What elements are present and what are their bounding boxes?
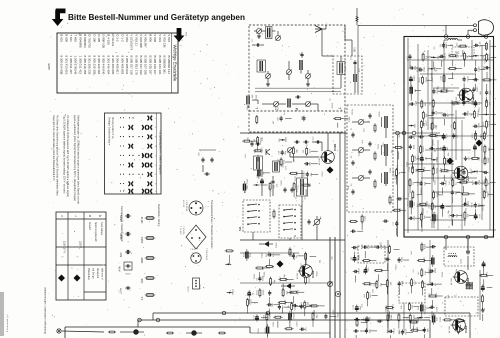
diamond ZA — [447, 158, 454, 165]
svg-text:D 701/702: D 701/702 — [88, 34, 92, 48]
svg-text:R161: R161 — [436, 292, 438, 298]
component — [428, 131, 442, 145]
component — [225, 263, 231, 265]
component — [225, 250, 234, 264]
component — [433, 190, 444, 199]
component — [428, 66, 441, 79]
svg-text:V 901: V 901 — [125, 34, 129, 42]
svg-text:AC151: AC151 — [296, 272, 299, 279]
svg-text:D 100: D 100 — [92, 34, 96, 42]
cap C49 — [271, 179, 274, 185]
svg-text:C105: C105 — [281, 180, 283, 186]
svg-text:R141: R141 — [442, 271, 444, 277]
component — [356, 318, 368, 327]
junction 397/133 — [396, 131, 400, 135]
varcap C8 — [306, 74, 311, 79]
svg-text:R101: R101 — [307, 301, 309, 307]
svg-text:R141: R141 — [391, 314, 393, 320]
hatch block — [466, 282, 473, 290]
wire tuner 5 — [311, 104, 319, 111]
component — [483, 120, 496, 135]
svg-text:R133: R133 — [263, 289, 265, 295]
svg-text:∼: ∼ — [76, 255, 79, 259]
component — [429, 202, 442, 217]
IF trafo L13 — [337, 62, 345, 75]
wire v100 2 — [262, 170, 302, 205]
svg-text:8 306 406 090: 8 306 406 090 — [111, 56, 115, 75]
svg-text:Transistoranschlüsse / Transis: Transistoranschlüsse / Transistor connec… — [210, 200, 213, 249]
fuse rating legend — [140, 204, 160, 301]
svg-text:4-fach-anschl. | pf: 4-fach-anschl. | pf — [7, 314, 9, 332]
svg-text:1n: 1n — [406, 57, 408, 59]
svg-text:V 956,957: V 956,957 — [144, 34, 148, 48]
svg-text:R155: R155 — [437, 167, 439, 173]
svg-text:C124: C124 — [431, 123, 433, 129]
svg-text:V100: V100 — [333, 143, 337, 151]
component — [428, 282, 442, 295]
component — [472, 179, 485, 185]
component — [243, 249, 252, 261]
measurement notes text — [52, 115, 80, 204]
svg-text:V 105: V 105 — [188, 286, 190, 292]
svg-text:C166: C166 — [254, 273, 256, 279]
svg-text:U: U — [61, 214, 63, 218]
transistor V103 — [296, 265, 315, 279]
junction mid right — [404, 131, 440, 135]
junction bottom 2 — [466, 235, 470, 239]
svg-text:AF 106: AF 106 — [318, 157, 321, 165]
component — [410, 326, 425, 332]
component — [462, 200, 470, 206]
component — [461, 211, 474, 226]
component — [440, 167, 454, 181]
component — [364, 267, 367, 274]
component — [462, 100, 473, 106]
wire bt — [62, 331, 330, 333]
component — [429, 306, 435, 318]
component — [418, 180, 431, 194]
component — [299, 327, 307, 331]
svg-text:47k: 47k — [430, 102, 432, 105]
component — [448, 52, 458, 66]
M/L switch box (dashed) — [238, 200, 270, 232]
component — [483, 171, 489, 183]
component — [451, 190, 462, 203]
svg-text:8 306 405 817: 8 306 405 817 — [116, 56, 120, 75]
component — [451, 121, 456, 130]
svg-text:C152: C152 — [435, 179, 437, 185]
dashed box TB2 — [444, 239, 474, 270]
component — [459, 180, 473, 193]
cap C11 — [295, 95, 301, 98]
component — [473, 55, 486, 66]
svg-text:C B E: C B E — [190, 249, 196, 251]
svg-text:C119: C119 — [415, 100, 417, 106]
pointer arrow (header) — [52, 9, 66, 27]
component — [483, 53, 496, 62]
svg-text:C131: C131 — [264, 271, 266, 277]
svg-text:B 900/903: B 900/903 — [83, 34, 87, 48]
component — [440, 74, 453, 89]
bottom box top — [153, 313, 470, 338]
svg-text:R161: R161 — [447, 157, 449, 163]
component — [361, 214, 367, 230]
svg-text:15k: 15k — [440, 44, 442, 47]
pointer arrow (table) — [174, 28, 188, 42]
svg-text:M/L: M/L — [238, 226, 242, 231]
component — [268, 290, 271, 304]
component — [408, 215, 420, 220]
diode m1 — [259, 241, 273, 246]
svg-text:R155: R155 — [437, 214, 439, 220]
wire plug drop 2 — [468, 30, 474, 34]
svg-text:R141: R141 — [291, 248, 293, 254]
svg-text:8 303 446 404: 8 303 446 404 — [106, 56, 110, 75]
component — [482, 261, 485, 275]
v103 fill — [243, 249, 316, 316]
svg-text:R141: R141 — [407, 161, 409, 167]
label BF254 — [294, 252, 296, 260]
component — [442, 133, 449, 140]
diamond V103 — [277, 261, 284, 268]
cap C81 cluster — [199, 150, 217, 176]
component — [353, 304, 362, 312]
varcap C42 — [288, 148, 293, 153]
component — [481, 156, 490, 165]
component — [302, 183, 312, 196]
wire antenna feed W01 — [355, 8, 359, 60]
svg-text:C105: C105 — [256, 94, 258, 100]
component — [409, 178, 420, 193]
svg-text:C105: C105 — [250, 298, 252, 304]
component — [418, 200, 428, 214]
component — [255, 266, 270, 279]
cap C50 — [283, 187, 293, 193]
component — [278, 304, 290, 310]
svg-text:V 931: V 931 — [167, 34, 171, 42]
component — [441, 203, 452, 216]
svg-text:x: x — [155, 191, 156, 193]
svg-text:D 1-3: D 1-3 — [120, 34, 124, 42]
svg-text:1k: 1k — [373, 284, 375, 286]
component — [462, 90, 468, 93]
component — [349, 220, 358, 222]
component — [470, 156, 480, 160]
svg-text:Wichtige Ersatzteile: Wichtige Ersatzteile — [172, 45, 177, 82]
svg-text:3205: 3205 — [47, 63, 51, 70]
dashed box TB3 — [399, 283, 425, 303]
wire if drop — [397, 135, 399, 237]
transistor V100 — [318, 143, 337, 165]
junction bottom 3 — [484, 235, 488, 239]
component — [282, 288, 294, 297]
svg-text:1n: 1n — [449, 68, 451, 70]
cap C43 — [294, 140, 309, 143]
svg-text:C144: C144 — [425, 308, 427, 314]
label L2 — [337, 106, 342, 109]
component — [256, 275, 264, 282]
varcap C5 — [266, 74, 271, 79]
svg-text:R141: R141 — [402, 256, 404, 262]
svg-text:R177: R177 — [309, 276, 311, 282]
component — [279, 136, 288, 142]
component — [292, 253, 304, 259]
component — [472, 202, 485, 216]
component — [304, 171, 319, 185]
component — [393, 168, 406, 185]
svg-text:B 305 107 039: B 305 107 039 — [139, 56, 143, 75]
svg-text:Y 101/32/74: Y 101/32/74 — [130, 34, 134, 50]
cap C44 — [315, 140, 321, 143]
cap C40 — [248, 136, 254, 146]
component — [273, 316, 282, 328]
component — [406, 54, 411, 67]
transistor ZA — [450, 166, 470, 181]
component — [409, 144, 416, 150]
component — [258, 167, 270, 179]
component — [354, 318, 367, 321]
svg-text:C166: C166 — [415, 155, 417, 161]
svg-text:Measured: Measured — [96, 268, 99, 279]
component — [482, 178, 495, 193]
component — [385, 303, 395, 318]
component — [393, 221, 398, 236]
svg-text:C131: C131 — [424, 166, 426, 172]
svg-text:1/16A: 1/16A — [140, 237, 144, 244]
component — [430, 99, 435, 114]
cap C3 — [252, 39, 261, 47]
svg-text:R122: R122 — [456, 52, 458, 58]
svg-text:∼: ∼ — [61, 255, 64, 259]
trafo Z102 — [295, 176, 308, 196]
component — [481, 285, 492, 292]
coil L4 — [257, 60, 266, 72]
rail x340 — [339, 132, 341, 338]
svg-text:R112: R112 — [435, 267, 437, 273]
component — [383, 220, 389, 223]
component — [432, 87, 443, 94]
component — [386, 279, 392, 294]
svg-text:C119: C119 — [484, 58, 486, 64]
component — [408, 198, 416, 214]
capacitor voltage legend — [119, 206, 133, 293]
IF strip (dashed) — [347, 105, 393, 212]
svg-text:250V: 250V — [119, 215, 123, 221]
bottom box outer — [65, 327, 250, 338]
svg-text:Bestückliste / Rat ing: Bestückliste / Rat ing — [157, 204, 160, 227]
component — [458, 44, 467, 57]
amplifier board outline — [404, 37, 494, 238]
tuner ground 2 — [306, 82, 310, 86]
svg-text:C105: C105 — [424, 66, 426, 72]
component — [299, 304, 312, 308]
svg-text:12k: 12k — [256, 278, 258, 281]
component — [474, 66, 485, 80]
component — [473, 144, 476, 157]
svg-text:8 306 220 184: 8 306 220 184 — [97, 56, 101, 75]
component — [449, 213, 462, 226]
component — [481, 308, 485, 321]
component — [479, 271, 493, 286]
svg-text:C144: C144 — [486, 44, 488, 50]
component — [481, 145, 494, 160]
tuner ground 3 — [257, 34, 261, 38]
svg-text:R177: R177 — [285, 299, 287, 305]
svg-text:R118: R118 — [262, 252, 264, 258]
svg-text:D 10-43L: D 10-43L — [111, 34, 115, 46]
component — [485, 90, 492, 103]
component — [374, 268, 389, 281]
component — [472, 86, 479, 100]
svg-text:Batteriebetr.: Batteriebetr. — [87, 268, 90, 281]
cap C7 — [300, 52, 303, 58]
component — [412, 154, 423, 169]
component — [301, 301, 315, 317]
component — [407, 314, 421, 329]
component — [278, 157, 293, 166]
svg-text:63V: 63V — [119, 252, 123, 257]
label M — [294, 108, 299, 111]
component — [481, 294, 483, 310]
tuner ground 1 — [266, 82, 270, 86]
svg-text:R141: R141 — [437, 156, 439, 162]
cap C13 — [351, 55, 357, 65]
varcap C10 — [306, 102, 311, 107]
coil L7 — [247, 96, 249, 105]
component — [443, 319, 458, 321]
svg-text:B 305006 134: B 305006 134 — [167, 56, 171, 75]
component — [398, 280, 405, 295]
component — [408, 123, 416, 127]
svg-text:R133: R133 — [352, 108, 354, 114]
component — [439, 52, 447, 66]
svg-text:R133: R133 — [262, 147, 264, 153]
if below fill — [349, 214, 389, 232]
dashed box TB4 — [445, 297, 478, 316]
component — [418, 302, 432, 319]
wire v100 — [290, 133, 328, 157]
component — [399, 328, 413, 335]
svg-text:V102: V102 — [466, 277, 470, 285]
switch diagram table — [105, 113, 163, 194]
svg-text:R161: R161 — [349, 116, 351, 122]
component — [385, 258, 391, 270]
component — [263, 312, 271, 327]
component — [448, 66, 462, 79]
component — [312, 312, 318, 327]
component — [362, 260, 377, 272]
svg-text:C105: C105 — [445, 179, 447, 185]
IF filter box (dashed) — [333, 56, 362, 94]
cap CK2 — [307, 219, 310, 225]
svg-text:Bereich: Bereich — [88, 222, 91, 231]
junction bt1 — [222, 311, 226, 315]
svg-text:R161: R161 — [358, 267, 360, 273]
wire m1 — [240, 253, 332, 283]
component — [363, 316, 371, 330]
lamp 2 — [128, 330, 144, 335]
svg-text:Schaltdiagramm / Switch diagra: Schaltdiagramm / Switch diagram — [158, 131, 162, 175]
svg-text:R101: R101 — [466, 207, 468, 213]
component — [409, 165, 422, 174]
svg-text:Bitte Bestell-Nummer und Gerät: Bitte Bestell-Nummer und Gerätetyp angeb… — [68, 13, 245, 22]
svg-text:Y 105 106,07: Y 105 106,07 — [205, 248, 207, 261]
component — [417, 317, 430, 319]
component — [305, 252, 317, 268]
component — [432, 167, 438, 182]
svg-text:R177: R177 — [436, 131, 438, 137]
transistor V104 — [448, 319, 468, 333]
svg-text:C131: C131 — [365, 215, 367, 221]
svg-text:R112: R112 — [414, 314, 416, 320]
svg-text:C166: C166 — [468, 110, 470, 116]
svg-text:8 301 413 010: 8 301 413 010 — [64, 56, 68, 75]
component — [289, 311, 296, 328]
coil L40 — [273, 161, 280, 172]
component — [353, 329, 366, 338]
svg-text:D 900-105: D 900-105 — [102, 34, 106, 48]
wire mains top — [358, 24, 474, 26]
junction bt2 — [266, 311, 270, 315]
component — [256, 288, 265, 297]
svg-text:C166: C166 — [479, 122, 481, 128]
component — [304, 161, 318, 165]
component — [483, 114, 496, 116]
svg-text:D 105: D 105 — [97, 34, 101, 42]
svg-text:R133: R133 — [232, 289, 234, 295]
rails right box — [404, 38, 496, 233]
svg-text:B 305 100 107: B 305 100 107 — [153, 56, 157, 75]
varcap C1 — [257, 29, 262, 34]
component — [432, 110, 443, 123]
component — [419, 76, 432, 85]
svg-text:C166: C166 — [468, 75, 470, 81]
component — [292, 304, 305, 307]
svg-text:8 305 614 008: 8 305 614 008 — [60, 56, 64, 75]
component — [409, 320, 419, 331]
box mesh — [407, 60, 493, 220]
component — [431, 122, 437, 137]
component — [420, 213, 431, 228]
svg-text:V 938: V 938 — [153, 34, 157, 42]
svg-text:R122: R122 — [482, 204, 484, 210]
junction bt4 — [156, 318, 160, 322]
svg-text:8 305 405 802: 8 305 405 802 — [120, 56, 124, 75]
component — [471, 168, 484, 174]
component — [474, 213, 481, 220]
component — [421, 99, 427, 108]
svg-text:1 305 011 423: 1 305 011 423 — [78, 56, 82, 75]
svg-text:V 932 CM: V 932 CM — [162, 34, 166, 48]
svg-text:220 V: 220 V — [79, 241, 83, 248]
component — [247, 298, 259, 314]
svg-text:C166: C166 — [489, 120, 491, 126]
svg-text:8 301 255 235: 8 301 255 235 — [88, 56, 92, 75]
component — [270, 277, 276, 286]
diode m2 — [281, 283, 295, 288]
component — [420, 120, 426, 135]
component — [486, 99, 492, 114]
component — [387, 327, 396, 338]
component — [471, 110, 484, 119]
svg-text:1k: 1k — [455, 329, 457, 331]
component — [461, 193, 475, 204]
wire mid 1 — [322, 42, 333, 56]
svg-text:1/8W: 1/8W — [140, 257, 144, 264]
component — [440, 41, 453, 48]
svg-text:B: B — [99, 214, 101, 218]
component — [423, 327, 430, 338]
